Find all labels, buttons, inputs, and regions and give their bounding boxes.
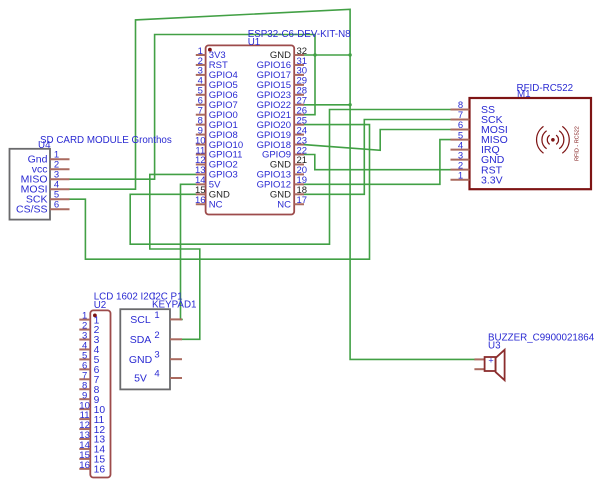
svg-text:RFID - RC522: RFID - RC522	[575, 126, 581, 161]
svg-text:28: 28	[297, 86, 308, 97]
U4 pins 1-6	[50, 159, 70, 209]
M1 antenna symbol	[537, 126, 570, 153]
svg-text:16: 16	[79, 460, 90, 471]
wire U1 pin32 GND branch	[304, 54, 350, 56]
svg-text:GND: GND	[270, 190, 291, 201]
svg-text:CS/SS: CS/SS	[16, 204, 48, 216]
svg-text:24: 24	[297, 125, 308, 136]
svg-text:GND: GND	[270, 160, 291, 171]
svg-text:16: 16	[195, 195, 206, 206]
svg-text:GPIO22: GPIO22	[257, 100, 291, 111]
wire SD SCK to U1 GPIO20	[70, 125, 370, 260]
svg-text:27: 27	[297, 96, 308, 107]
svg-text:4: 4	[458, 140, 463, 151]
svg-text:5V: 5V	[134, 373, 147, 385]
wire U1 GPIO12 to RFID MISO	[304, 140, 451, 185]
U3 speaker body	[485, 357, 496, 371]
svg-text:8: 8	[458, 100, 463, 111]
P1 pin numbers	[154, 310, 159, 380]
svg-text:NC: NC	[209, 199, 223, 210]
P1 pins 1-4	[170, 319, 182, 378]
svg-text:SD CARD MODULE Gronthos: SD CARD MODULE Gronthos	[40, 135, 172, 146]
svg-text:30: 30	[297, 66, 308, 77]
svg-text:7: 7	[458, 110, 463, 121]
U1 right pin names	[257, 50, 291, 210]
svg-text:ESP32-C6-DEV-KIT-N8: ESP32-C6-DEV-KIT-N8	[248, 29, 351, 40]
svg-text:6: 6	[54, 200, 59, 211]
svg-text:GPIO17: GPIO17	[257, 70, 291, 81]
svg-text:GPIO23: GPIO23	[257, 90, 291, 101]
svg-text:20: 20	[297, 165, 308, 176]
U2 body	[90, 310, 110, 477]
svg-text:SCL: SCL	[130, 314, 151, 326]
U4 pin numbers	[54, 150, 59, 211]
U3 speaker cone	[496, 350, 505, 380]
svg-text:GPIO21: GPIO21	[257, 110, 291, 121]
P1 body	[120, 309, 170, 389]
wire U1 pin27 GPIO22 branch	[304, 104, 350, 106]
module U1 ESP32-C6-DEV-KIT-N8	[195, 29, 351, 215]
U1 body	[206, 45, 295, 214]
U4 pin names	[16, 154, 48, 216]
svg-text:GPIO20: GPIO20	[257, 120, 291, 131]
U1 right pin numbers	[297, 46, 308, 206]
svg-text:NC: NC	[277, 199, 291, 210]
U4 body	[10, 149, 51, 220]
svg-text:3: 3	[458, 150, 463, 161]
svg-text:M1: M1	[517, 89, 531, 100]
svg-text:2: 2	[458, 160, 463, 171]
junction at GND net / pin27 row	[348, 103, 351, 106]
svg-text:+: +	[488, 356, 493, 366]
svg-text:17: 17	[297, 195, 308, 206]
svg-text:U3: U3	[488, 341, 501, 352]
svg-text:BUZZER_C9900021864: BUZZER_C9900021864	[488, 332, 595, 343]
U3 pins	[474, 358, 484, 360]
svg-text:KEYPAD1: KEYPAD1	[152, 299, 196, 310]
svg-text:4: 4	[154, 369, 159, 380]
svg-text:SDA: SDA	[130, 334, 152, 346]
wire U1 GND15 to RFID SS	[130, 110, 450, 245]
svg-text:GPIO9: GPIO9	[262, 150, 291, 161]
svg-text:GPIO13: GPIO13	[257, 170, 291, 181]
svg-text:GPIO16: GPIO16	[257, 60, 291, 71]
svg-text:32: 32	[297, 46, 308, 57]
module M1 RFID-RC522	[451, 83, 592, 189]
M1 body	[470, 98, 592, 189]
U1 left pin numbers	[195, 46, 206, 206]
svg-text:GPIO19: GPIO19	[257, 130, 291, 141]
wire SD MOSI / GND net long run to buzzer	[70, 9, 475, 359]
U1 left pins 1-16	[196, 55, 206, 204]
svg-text:U2: U2	[94, 300, 107, 311]
wire U1 GND18 to RFID SCK	[304, 120, 451, 195]
U2 pins 1-16	[79, 320, 90, 469]
svg-text:6: 6	[458, 120, 463, 131]
wire U1 GPIO9 to RFID RST	[304, 155, 451, 170]
svg-text:31: 31	[297, 56, 308, 67]
U2 pin names	[94, 315, 106, 475]
svg-text:21: 21	[297, 155, 308, 166]
wire U1 GPIO3 to P1 SDA	[150, 174, 200, 339]
U2 pin numbers	[79, 311, 90, 471]
U1 left pin names	[209, 50, 243, 210]
svg-text:18: 18	[297, 185, 308, 196]
P1 pin names	[129, 314, 153, 385]
module U4 SD card	[10, 135, 172, 220]
junction at GND net / pin32 row right	[348, 53, 351, 56]
svg-text:GND: GND	[270, 50, 291, 61]
svg-text:16: 16	[94, 465, 106, 476]
svg-text:26: 26	[297, 106, 308, 117]
wire U1 GPIO18 to RFID MOSI (diagonal)	[304, 130, 451, 151]
svg-text:19: 19	[297, 175, 308, 186]
svg-text:GPIO18: GPIO18	[257, 140, 291, 151]
module U2 LCD 1602 I2C	[79, 292, 155, 478]
svg-text:1: 1	[458, 170, 463, 181]
wire U1 5V to P1 SCL	[181, 184, 196, 319]
buzzer U3	[474, 332, 594, 380]
svg-text:23: 23	[297, 135, 308, 146]
M1 pin names	[481, 104, 508, 186]
U1 right pins 17-32	[294, 55, 304, 204]
svg-text:U4: U4	[38, 140, 51, 151]
svg-text:22: 22	[297, 145, 308, 156]
connector P1 I2C	[120, 292, 196, 390]
svg-text:GPIO12: GPIO12	[257, 180, 291, 191]
svg-text:1: 1	[154, 310, 159, 321]
wire SD MISO to U1 GPIO21	[70, 35, 316, 180]
U2 pin-1 mark	[93, 314, 97, 318]
svg-text:SS: SS	[481, 104, 495, 116]
M1 pin numbers	[458, 100, 463, 181]
svg-text:GPIO15: GPIO15	[257, 80, 291, 91]
svg-text:U1: U1	[248, 37, 261, 48]
junction at GND net / pin32 row left	[313, 53, 316, 56]
svg-text:5: 5	[458, 130, 463, 141]
svg-text:25: 25	[297, 115, 308, 126]
svg-text:3: 3	[154, 350, 159, 361]
svg-text:29: 29	[297, 76, 308, 87]
M1 pins 1-8	[451, 109, 470, 179]
U1 pin-1 mark	[208, 48, 212, 52]
svg-text:GND: GND	[129, 354, 153, 366]
svg-text:2: 2	[154, 330, 159, 341]
